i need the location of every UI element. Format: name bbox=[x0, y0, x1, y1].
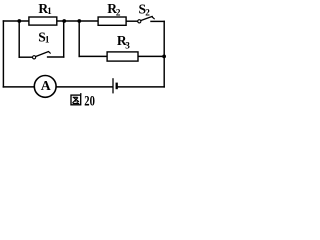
node junction dot right of R1 bbox=[62, 19, 66, 23]
node junction dot left of R1 bbox=[17, 19, 21, 23]
wire bottom right (battery to corner) bbox=[117, 86, 164, 88]
resistor R3 bbox=[107, 52, 138, 61]
svg-text:A: A bbox=[41, 78, 51, 93]
wire R3 branch left vertical bbox=[78, 21, 80, 56]
wire top-left segment bbox=[3, 20, 29, 22]
resistor R1 bbox=[29, 17, 57, 25]
wire between R1 and R2 bbox=[57, 20, 99, 22]
wire left vertical bbox=[2, 21, 4, 87]
wire S1 branch bottom right bbox=[48, 56, 64, 58]
switch S2 pivot circle bbox=[138, 20, 141, 23]
switch S2 blade tip bbox=[152, 17, 154, 19]
node junction dot R3 branch top bbox=[77, 19, 81, 23]
wire R2 to S2 pivot bbox=[126, 20, 138, 22]
caption hanzi 图 (figure) bbox=[71, 93, 81, 105]
node junction dot R3 branch right bbox=[162, 55, 166, 59]
svg-text:20: 20 bbox=[84, 93, 95, 109]
switch S1 blade tip bbox=[49, 52, 51, 54]
battery long plate bbox=[112, 78, 114, 93]
switch S1 pivot circle bbox=[33, 56, 36, 59]
wire right vertical bbox=[163, 21, 165, 87]
wire bottom ammeter-to-battery bbox=[56, 86, 113, 88]
wire bottom left segment bbox=[3, 86, 34, 88]
battery short plate bbox=[116, 83, 118, 90]
wire R3 branch left horizontal bbox=[79, 55, 107, 57]
resistor R2 bbox=[98, 17, 126, 25]
wire S1 branch right vertical bbox=[63, 21, 65, 57]
wire S1 branch bottom left bbox=[19, 56, 32, 58]
ammeter A1 circle bbox=[34, 76, 56, 98]
svg-text:2: 2 bbox=[145, 8, 150, 18]
wire S2 to top-right corner bbox=[151, 20, 164, 22]
svg-text:1: 1 bbox=[45, 35, 50, 45]
switch S2 blade bbox=[141, 16, 152, 20]
svg-text:1: 1 bbox=[47, 6, 52, 16]
wire R3 branch right horizontal bbox=[139, 55, 165, 57]
wire S1 branch left vertical bbox=[18, 21, 20, 57]
switch S1 blade bbox=[36, 52, 49, 57]
svg-text:2: 2 bbox=[116, 7, 121, 17]
svg-text:3: 3 bbox=[125, 40, 130, 50]
